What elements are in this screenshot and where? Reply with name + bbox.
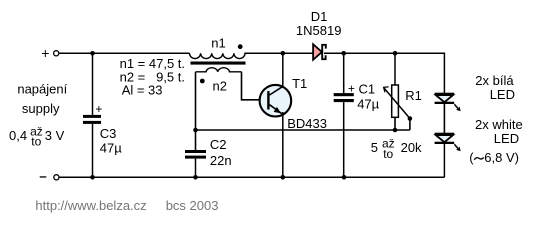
capacitor C3 [83, 102, 102, 124]
capacitor C1 [334, 53, 355, 177]
svg-text:1N5819: 1N5819 [296, 23, 342, 38]
node junction C2 top [193, 128, 198, 133]
svg-text:C3: C3 [100, 126, 117, 141]
wire collector lead [282, 53, 284, 87]
svg-text:bcs 2003: bcs 2003 [166, 198, 219, 213]
node minus terminal [40, 175, 59, 180]
svg-text:+: + [348, 82, 355, 96]
wire bias line C2 to R1 [196, 129, 410, 131]
led LED1 [435, 93, 461, 112]
svg-text:LED: LED [490, 87, 515, 102]
svg-text:3 V: 3 V [45, 128, 65, 143]
wire bottom rail [59, 176, 444, 178]
transistor T1 [260, 85, 292, 117]
svg-text:5: 5 [371, 140, 378, 155]
transformer core [191, 62, 246, 65]
svg-text:20k: 20k [401, 140, 422, 155]
svg-text:C2: C2 [210, 137, 227, 152]
node n1 polarity dot [238, 44, 243, 49]
potentiometer R1 [384, 53, 413, 132]
inductor n1 winding [190, 53, 246, 58]
wire emitter lead [282, 112, 284, 177]
svg-text:(: ( [469, 150, 474, 165]
node junction bottom C2 [193, 175, 198, 180]
svg-text:+: + [95, 102, 102, 116]
svg-text:D1: D1 [311, 9, 328, 24]
svg-text:0,4: 0,4 [9, 128, 27, 143]
node junction bottom emitter [281, 175, 286, 180]
node junction R1 top [393, 51, 398, 56]
wire C3 upper lead [92, 53, 94, 115]
capacitor C2 [185, 130, 206, 177]
svg-text:BD433: BD433 [287, 116, 327, 131]
svg-text:n2: n2 [213, 78, 227, 93]
svg-text:n1: n1 [211, 36, 225, 51]
svg-text:T1: T1 [292, 76, 307, 91]
svg-text:to: to [383, 147, 393, 161]
svg-text:47µ: 47µ [100, 140, 122, 155]
led LED2 [435, 133, 461, 152]
svg-text:Al = 33: Al = 33 [122, 83, 163, 98]
wire n2 left lead down [195, 72, 197, 130]
svg-text:supply: supply [22, 101, 60, 116]
node junction C1 top [341, 51, 346, 56]
svg-text:napájení: napájení [17, 82, 67, 97]
node plus terminal [41, 45, 59, 61]
node junction bottom C1 [342, 175, 347, 180]
diode D1 [313, 44, 326, 60]
svg-text:R1: R1 [405, 88, 422, 103]
wire C3 lower lead [92, 124, 94, 177]
node junction collector [281, 51, 286, 56]
wire n2 right lead to base [242, 72, 267, 100]
svg-text:2x bílá: 2x bílá [475, 73, 514, 88]
wire LED chain mid [443, 104, 445, 133]
wire top rail left [59, 52, 189, 54]
svg-text:C1: C1 [359, 81, 376, 96]
node n2 polarity dot [200, 79, 205, 84]
svg-text:to: to [31, 135, 41, 149]
svg-text:+: + [41, 45, 49, 61]
wire top rail mid [244, 52, 313, 54]
node junction bottom C3 [90, 175, 95, 180]
wire LED chain bottom [443, 144, 445, 177]
node junction top C3 [90, 51, 95, 56]
svg-text:http://www.belza.cz: http://www.belza.cz [35, 198, 146, 213]
svg-text:LED: LED [494, 131, 519, 146]
svg-text:22n: 22n [210, 153, 232, 168]
inductor n2 winding [196, 68, 242, 72]
svg-text:2x white: 2x white [475, 117, 523, 132]
svg-text:47µ: 47µ [357, 97, 379, 112]
svg-text:6,8 V): 6,8 V) [484, 150, 519, 165]
wire top rail right [324, 53, 444, 93]
